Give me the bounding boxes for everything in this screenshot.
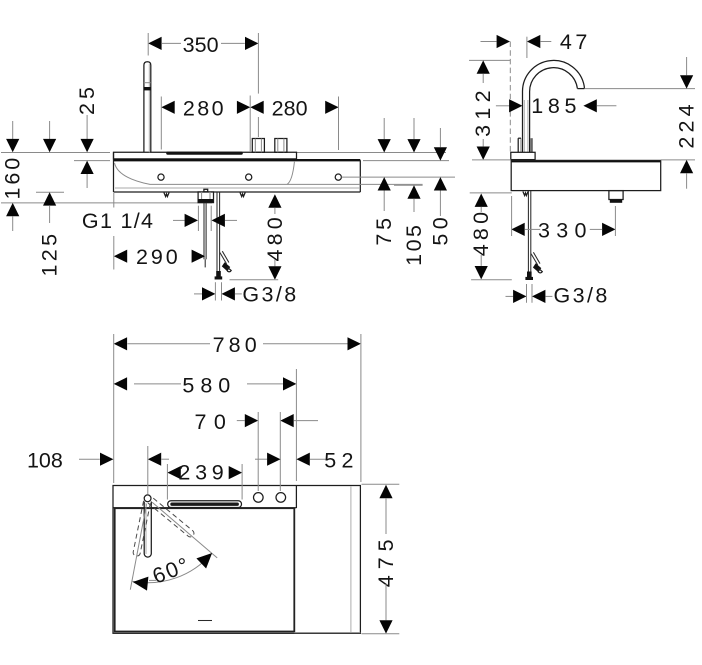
side hose G3/8 end fitting [527,272,532,278]
dim 105 front [413,118,415,139]
side angled hose branch [531,254,538,265]
front view: countertop surface line [1,152,110,154]
224 top ref line from outlet [585,88,695,90]
dim 52 plan [255,458,267,460]
dim 160 front [12,121,14,139]
front 105 ref segment [394,184,423,186]
svg-text:105: 105 [402,223,426,266]
side spout arc tube [522,60,584,152]
front faucet body plate [114,152,297,159]
front view: 125 ref extension segment [36,191,64,193]
svg-text:75: 75 [372,214,396,246]
plan deck strip line [113,507,296,509]
side angled branch fitting [533,263,541,272]
svg-text:312: 312 [471,85,495,137]
front view: counter underside hidden line (160 ref) [1,202,212,204]
front drain pipe lines [203,203,205,260]
front mounting stud marks [164,193,169,197]
plan spout pivot [144,495,151,502]
side view spout centerline dashed [509,42,511,153]
svg-text:330: 330 [538,218,593,242]
svg-text:125: 125 [38,230,62,276]
svg-text:47: 47 [560,30,591,54]
front body underside sculpt line [115,163,423,184]
plan drain grate [168,501,242,508]
side base plate [511,152,535,159]
front mounting holes [158,174,164,180]
dim G3/8 side [506,295,514,297]
front 50/25 ref line right [363,160,449,162]
front angled hose branch [220,253,227,264]
front angled branch fitting [222,262,230,271]
dim 280 right front [250,101,263,114]
dim 312 side [469,59,510,61]
svg-text:G3/8: G3/8 [242,282,298,306]
side spout inner wall lines [523,100,525,152]
svg-text:50: 50 [428,213,452,246]
front hole center line right [342,176,456,178]
dim 239 plan [167,466,180,479]
dim 480 front [268,194,281,207]
plan inner line right portion [350,487,352,633]
front handle knob 2 [275,139,287,153]
front G1 1/4 tailpiece [198,192,213,203]
dim 50 front [439,128,441,147]
svg-text:160: 160 [1,155,25,200]
plan knob circles [253,493,263,503]
svg-text:25: 25 [75,83,99,115]
svg-text:52: 52 [324,449,359,473]
svg-text:480: 480 [263,213,287,261]
svg-text:580: 580 [182,374,236,398]
svg-text:108: 108 [27,449,63,473]
svg-text:224: 224 [675,100,699,148]
svg-text:290: 290 [136,245,181,269]
svg-text:480: 480 [469,208,493,256]
60 degree swing leaders and arc [130,504,146,589]
plan drain mark [198,620,212,622]
plan spout arm dashed left [133,501,151,557]
dim 780 plan [114,337,127,350]
side waste outlet stub [609,191,623,200]
svg-text:G1 1/4: G1 1/4 [82,209,154,233]
dim 580 plan [114,377,127,390]
dim 125 front [49,121,51,139]
front body outline [113,152,115,192]
front view: 25 ref line left [74,160,110,162]
60 degree arc tail [149,579,156,581]
dim 25 front [86,115,88,139]
plan basin walls [115,508,295,631]
plan outer body rect [113,486,360,634]
dim 290 front [114,250,127,263]
dim 330 side [511,223,524,236]
front spout [144,62,151,153]
side body [511,160,661,162]
svg-text:475: 475 [374,533,398,587]
dim 350 front [162,42,181,44]
svg-text:70: 70 [194,410,233,434]
dim 224 side [686,57,688,75]
side spout outlet face [577,88,584,90]
plan spout arm dashed right [148,497,195,538]
plan spout arm solid (down) [144,502,151,558]
dim 75 front [383,118,385,139]
dim 475 plan [362,483,400,485]
svg-text:780: 780 [213,333,261,357]
dim 185 side [496,105,510,107]
dim G3/8 front [194,293,202,295]
dim 480 side [470,192,512,194]
side handle column [517,138,519,152]
front hose G3/8 end fitting [216,271,221,277]
svg-text:280: 280 [272,97,308,121]
side hoses [527,191,529,273]
front body faint mid line [115,187,360,189]
svg-text:G3/8: G3/8 [553,284,609,308]
svg-text:239: 239 [178,461,228,485]
front drain grate [166,152,243,155]
plan plate right divider [295,486,297,509]
front supply hose [216,192,218,272]
svg-text:350: 350 [183,33,219,57]
dim 47 side [481,41,497,43]
svg-text:185: 185 [531,94,581,118]
svg-text:280: 280 [183,97,226,121]
side counter lines [472,159,511,161]
side stud mark [523,192,528,196]
front handle knob 1 [252,139,264,153]
dim 280 left front [161,101,174,114]
